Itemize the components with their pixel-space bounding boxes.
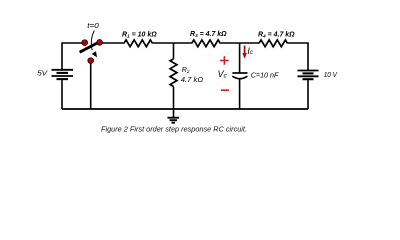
svg-text:C=10 nF: C=10 nF xyxy=(251,72,279,79)
label R4 = 4.7 kOhm xyxy=(258,31,295,38)
label C=10 nF xyxy=(251,72,279,79)
svg-text:4.7 kΩ: 4.7 kΩ xyxy=(181,77,204,84)
svg-text:10 V: 10 V xyxy=(324,72,339,79)
label 10 V xyxy=(324,72,339,79)
label R1 = 10 kOhm xyxy=(122,31,157,38)
polarity + (capacitor) xyxy=(220,56,229,65)
capacitor C top plate xyxy=(232,72,247,74)
svg-text:R2: R2 xyxy=(182,67,190,74)
wire R1 to node A xyxy=(152,42,191,44)
wire R4 to right branch corner xyxy=(287,43,308,71)
label Vc xyxy=(218,69,228,80)
label Ic xyxy=(247,46,253,56)
label R2 xyxy=(182,67,190,74)
wire node A down to R2 xyxy=(173,43,175,59)
polarity - (capacitor) xyxy=(221,89,229,91)
svg-text:Ic: Ic xyxy=(247,46,253,56)
resistor R1 xyxy=(124,40,152,47)
switch actuation arrow xyxy=(91,31,97,58)
svg-text:R1 = 10 kΩ: R1 = 10 kΩ xyxy=(122,31,157,38)
wire top-left from 5V source to switch xyxy=(62,43,83,70)
resistor R4 xyxy=(259,40,287,47)
label t=0 xyxy=(87,21,99,30)
ground xyxy=(168,109,180,123)
svg-text:Vc: Vc xyxy=(218,69,228,80)
capacitor C bottom plate xyxy=(232,76,247,79)
resistor R3 xyxy=(192,40,220,47)
wire 10V battery bottom to bottom rail xyxy=(307,79,309,109)
switch terminal bottom (red dot) xyxy=(88,58,94,64)
voltage source 5V battery xyxy=(52,70,74,79)
wire capacitor bottom to bottom rail xyxy=(239,79,241,109)
wire R3 to node B xyxy=(220,42,259,44)
wire node B down to capacitor xyxy=(239,43,241,72)
switch terminal left (red dot) xyxy=(82,40,88,46)
svg-text:t=0: t=0 xyxy=(87,21,99,30)
resistor R2 xyxy=(170,59,177,87)
label 4.7 kOhm (R2 value) xyxy=(181,77,204,84)
svg-text:Figure 2 First order step resp: Figure 2 First order step response RC ci… xyxy=(101,127,247,134)
wire R2 bottom to bottom rail xyxy=(173,87,175,110)
voltage source 10V battery xyxy=(298,71,319,80)
svg-text:R4 = 4.7 kΩ: R4 = 4.7 kΩ xyxy=(258,31,295,38)
switch t=0 lever xyxy=(80,41,102,53)
caption: Figure 2 First order step response RC circuit. xyxy=(101,127,247,134)
current arrow Ic xyxy=(242,46,247,59)
label R3 = 4.7 kOhm xyxy=(190,31,227,38)
svg-text:R3 = 4.7 kΩ: R3 = 4.7 kΩ xyxy=(190,31,227,38)
label 5V xyxy=(37,71,49,78)
switch terminal right (red dot) xyxy=(97,40,103,46)
wire switch right terminal to R1 xyxy=(102,42,124,44)
wire 5V battery bottom to bottom rail xyxy=(61,79,63,109)
wire switch bottom terminal to bottom rail xyxy=(90,63,92,109)
svg-text:5V: 5V xyxy=(37,71,49,78)
wire bottom rail xyxy=(62,108,308,110)
